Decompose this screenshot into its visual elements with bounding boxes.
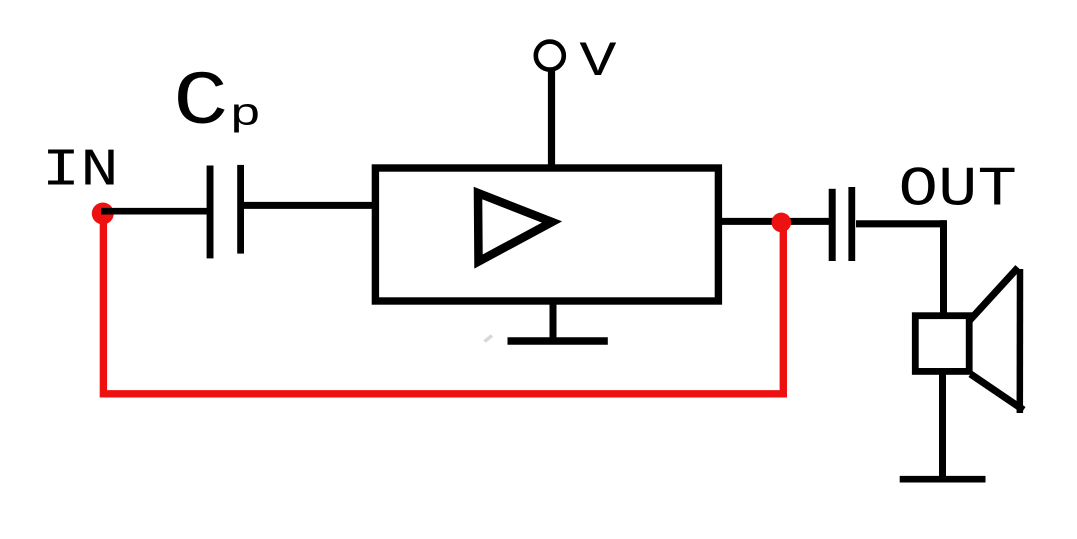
- label C_p: [173, 60, 229, 146]
- svg-text:C: C: [173, 60, 229, 146]
- svg-text:OUT: OUT: [899, 159, 1017, 222]
- amplifier gain triangle: [478, 193, 552, 262]
- wire IN node to capacitor C_p: [101, 208, 208, 215]
- ground (amplifier): [508, 337, 608, 345]
- output capacitor right plate: [848, 187, 855, 261]
- speaker LS1 cone top diagonal: [970, 268, 1019, 321]
- label V: [579, 33, 617, 90]
- speaker LS1 cone bottom diagonal: [971, 374, 1024, 410]
- wire amplifier output to node A: [722, 218, 830, 225]
- wire speaker to ground: [939, 373, 946, 480]
- wire corner down to speaker: [940, 220, 947, 314]
- speaker LS1 magnet square: [915, 316, 969, 372]
- svg-text:IN: IN: [42, 140, 119, 200]
- amplifier ground stub: [550, 301, 557, 341]
- node A junction dot: [772, 213, 792, 233]
- node IN junction dot: [92, 203, 114, 225]
- wire output capacitor to speaker (horizontal): [856, 220, 946, 227]
- amplifier U1 box: [375, 168, 718, 301]
- wire V terminal to amplifier top: [548, 70, 555, 165]
- ground (speaker): [900, 476, 986, 483]
- speaker LS1 cone right edge: [1017, 269, 1024, 413]
- output capacitor left plate: [829, 189, 836, 261]
- stray mark near amplifier ground: [485, 336, 493, 342]
- capacitor C_p right plate: [237, 165, 244, 254]
- supply terminal V circle: [536, 42, 564, 70]
- red feedback wire IN node to node A: [103, 218, 783, 394]
- wire capacitor C_p to amplifier input: [244, 202, 372, 209]
- svg-text:p: p: [229, 93, 261, 136]
- label OUT: [899, 159, 1017, 222]
- label IN: [42, 140, 119, 200]
- svg-text:V: V: [579, 33, 617, 90]
- capacitor C_p left plate: [207, 166, 214, 259]
